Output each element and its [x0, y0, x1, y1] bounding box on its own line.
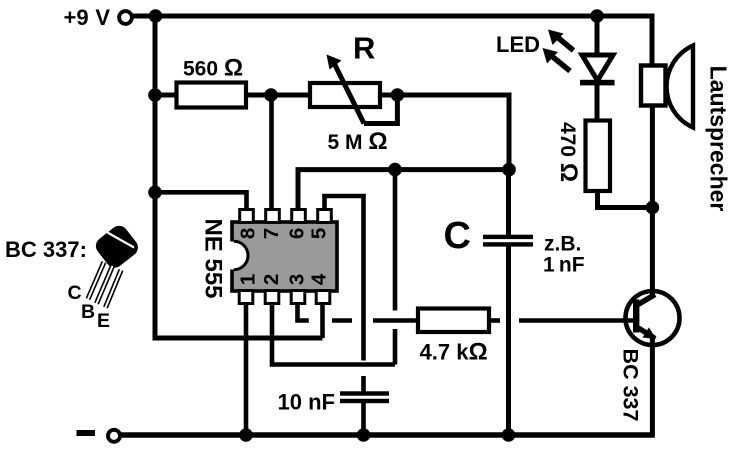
- wire: emitter to ground rail: [650, 337, 655, 435]
- capacitor 10 nF plate top: [340, 391, 389, 395]
- svg-text:+9: +9: [64, 5, 89, 30]
- transistor Q1 base bar: [633, 300, 639, 333]
- svg-text:4.7 kΩ: 4.7 kΩ: [420, 339, 488, 366]
- svg-text:R: R: [353, 31, 375, 66]
- wire: pot right to threshold line: [380, 95, 509, 170]
- wire: output line dash 2: [373, 318, 419, 323]
- wire: pin2 riser lower segment: [393, 329, 398, 365]
- transistor Q1 circle: [626, 291, 680, 345]
- potentiometer R body: [310, 83, 380, 107]
- LED arrowhead 1: [548, 30, 564, 46]
- wire: speaker to collector node: [650, 106, 655, 208]
- potentiometer arrowhead: [327, 55, 342, 70]
- transistor package leg 2: [97, 266, 113, 304]
- IC pin 1 square: [239, 291, 253, 304]
- svg-text:5: 5: [308, 228, 331, 239]
- svg-text:6: 6: [286, 228, 309, 239]
- wire: rail to 560 ohm: [155, 93, 178, 98]
- svg-text:10 nF: 10 nF: [278, 390, 335, 415]
- node: timing cap junction: [502, 163, 516, 177]
- svg-text:1: 1: [237, 274, 260, 285]
- wire: timing cap top lead: [506, 170, 511, 236]
- wire: pin5 drop below hop: [361, 376, 366, 392]
- svg-text:B: B: [81, 301, 95, 323]
- svg-text:3: 3: [286, 274, 309, 285]
- wire: rail to LED anode: [595, 16, 600, 55]
- IC pin 8 square: [240, 210, 254, 223]
- wire: 560 ohm to pin7 node: [246, 93, 312, 98]
- wire: top +9V rail: [155, 16, 652, 68]
- wire: 4.7k right stub: [489, 318, 500, 323]
- svg-text:1 nF: 1 nF: [543, 254, 585, 277]
- node: 10nF ground junction: [357, 428, 371, 442]
- resistor R3 4.7k: [418, 309, 489, 333]
- LED arrow 1: [556, 36, 574, 51]
- node: pin7 / R junction: [264, 88, 278, 102]
- svg-text:BC 337: BC 337: [619, 349, 643, 422]
- wire: LED to 470 ohm: [595, 85, 600, 122]
- IC pin 3 square: [291, 291, 305, 304]
- LED arrow 2: [551, 56, 570, 72]
- node: +9V junction: [149, 9, 163, 23]
- wire: rail to pin 8: [155, 192, 247, 213]
- wire: left +9V rail down and over to pin 4: [155, 16, 323, 338]
- svg-text:2: 2: [260, 274, 283, 285]
- LED arrowhead 2: [543, 48, 559, 64]
- svg-text:V: V: [95, 5, 110, 30]
- transistor package leg 1: [88, 262, 104, 299]
- transistor Q1 emitter diagonal: [639, 328, 656, 339]
- svg-text:560 Ω: 560 Ω: [183, 55, 243, 82]
- wire: pin 5 elbow to 10nF: [325, 196, 364, 361]
- transistor package chamfer highlight: [108, 233, 135, 248]
- svg-text:7: 7: [260, 228, 283, 239]
- wire: pin 3 output elbow: [298, 300, 309, 321]
- transistor Q1 emitter arrowhead: [643, 327, 657, 339]
- resistor R2 470 ohm: [586, 121, 611, 192]
- wire: 470 ohm to collector node: [598, 191, 653, 208]
- transistor package leg 3: [106, 270, 122, 308]
- battery negative terminal: [108, 430, 120, 442]
- svg-text:z.B.: z.B.: [544, 233, 581, 256]
- IC pin 2 square: [265, 291, 279, 304]
- IC notch arc: [234, 241, 248, 269]
- svg-text:4: 4: [308, 273, 331, 285]
- wire: 10nF to ground rail: [361, 403, 366, 435]
- svg-text:LED: LED: [496, 32, 540, 57]
- wire: pin 2 elbow: [272, 300, 395, 365]
- capacitor C plate bottom: [483, 242, 533, 246]
- node: collector junction: [646, 201, 660, 215]
- capacitor C plate top: [483, 235, 533, 239]
- wire: output line dash 1: [332, 318, 352, 323]
- wire: bottom ground rail: [121, 432, 655, 437]
- capacitor 10 nF plate bottom: [340, 399, 389, 403]
- svg-text:5 M Ω: 5 M Ω: [328, 128, 388, 155]
- node: pin2 tie junction: [388, 163, 402, 177]
- label minus: [77, 430, 96, 436]
- svg-text:NE 555: NE 555: [199, 218, 226, 298]
- svg-text:C: C: [68, 282, 82, 304]
- resistor R1 560 ohm: [177, 83, 247, 108]
- wire: pin2 riser upper segment: [393, 170, 398, 311]
- wire: pin 1 to ground: [244, 300, 249, 435]
- battery positive terminal +9V: [119, 11, 132, 24]
- wire: timing cap bottom lead: [506, 246, 511, 435]
- node: pin8 rail junction: [148, 186, 162, 200]
- IC pin 5 square: [318, 210, 332, 223]
- IC pin 7 square: [266, 210, 280, 223]
- svg-text:BC 337:: BC 337:: [5, 237, 87, 262]
- wire: pin 6 threshold line: [298, 170, 509, 213]
- node: C ground junction: [502, 428, 516, 442]
- wire: collector riser: [650, 208, 655, 297]
- loudspeaker box: [641, 66, 666, 106]
- svg-text:C: C: [444, 215, 471, 257]
- wire: +9V terminal to junction: [132, 14, 158, 19]
- svg-text:E: E: [97, 310, 110, 332]
- transistor package BC337 body: [92, 222, 141, 271]
- LED D1 triangle: [582, 55, 613, 81]
- LED D1 cathode bar: [580, 80, 615, 86]
- wire: pin 4 to rail line: [320, 300, 325, 338]
- IC pin 4 square: [316, 291, 330, 304]
- IC notch blank: [229, 242, 235, 270]
- IC U1 NE555 body: [232, 222, 337, 291]
- loudspeaker cone: [667, 46, 693, 128]
- transistor Q1 collector diagonal: [638, 295, 655, 305]
- node: LED rail junction: [590, 9, 604, 23]
- wire: wiper elbow to right terminal: [364, 95, 397, 124]
- wire: node down to pin 7: [269, 95, 274, 213]
- potentiometer wiper arrow: [334, 62, 365, 124]
- node: pin1 ground junction: [239, 428, 253, 442]
- wire: base line to transistor: [519, 318, 633, 323]
- svg-text:Lautsprecher: Lautsprecher: [706, 66, 730, 212]
- node: pot right junction: [391, 88, 405, 102]
- svg-text:8: 8: [237, 228, 260, 239]
- IC pin 6 square: [292, 210, 306, 223]
- svg-text:470 Ω: 470 Ω: [555, 122, 582, 182]
- node: 560 ohm left junction: [148, 88, 162, 102]
